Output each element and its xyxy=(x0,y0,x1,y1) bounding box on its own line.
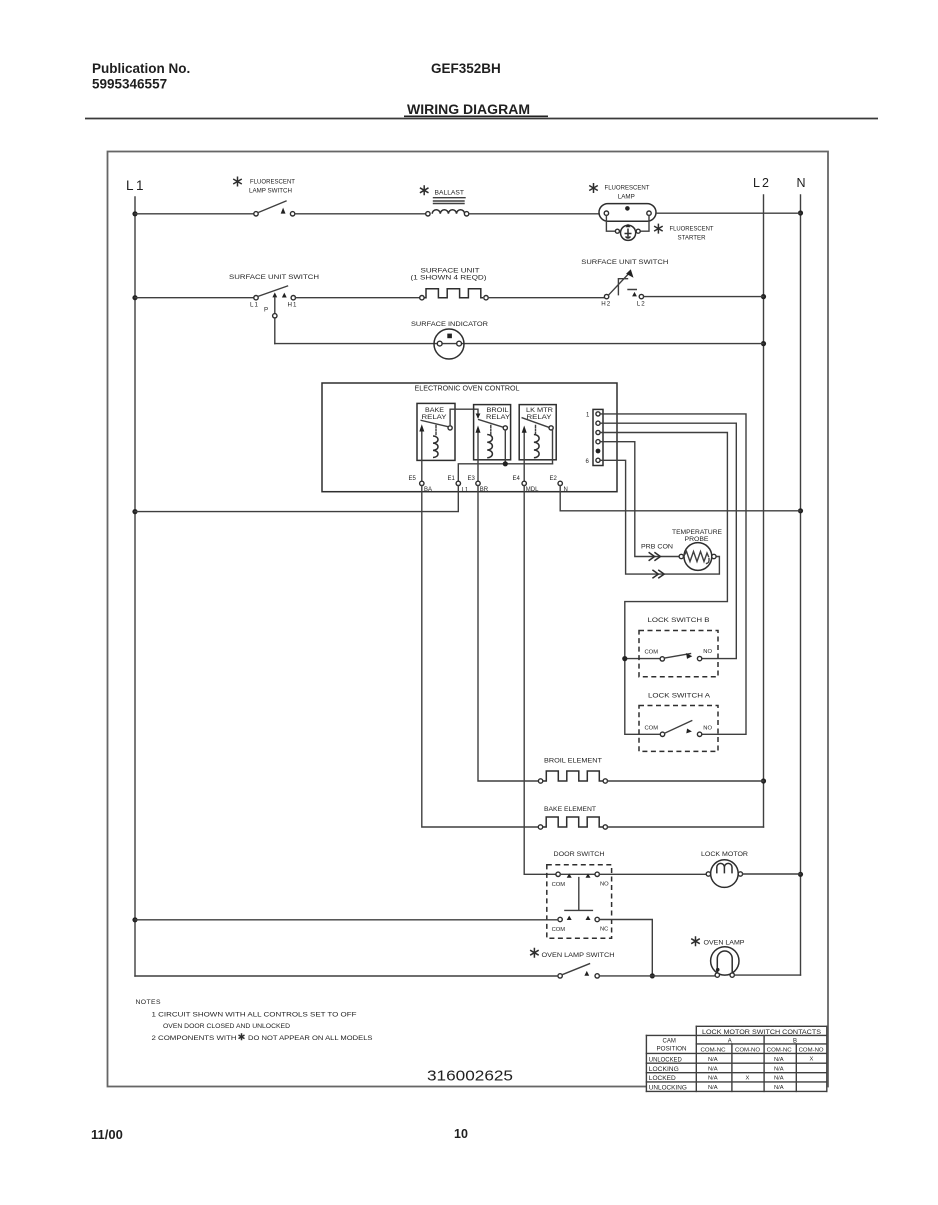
svg-text:2 COMPONENTS WITH: 2 COMPONENTS WITH xyxy=(152,1035,237,1042)
svg-text:COM-NC: COM-NC xyxy=(767,1047,792,1053)
svg-text:LOCK SWITCH A: LOCK SWITCH A xyxy=(648,692,711,699)
svg-text:BALLAST: BALLAST xyxy=(435,190,465,197)
surface unit switch left xyxy=(229,274,319,314)
svg-text:LAMP SWITCH: LAMP SWITCH xyxy=(249,188,292,195)
svg-text:ELECTRONIC OVEN CONTROL: ELECTRONIC OVEN CONTROL xyxy=(415,386,520,393)
connector J1 xyxy=(586,409,604,465)
svg-text:E2: E2 xyxy=(550,476,558,482)
wire L2 bus vertical xyxy=(763,195,765,827)
svg-text:COM: COM xyxy=(552,882,566,888)
junction L2-indicator row xyxy=(761,341,766,346)
svg-text:1 CIRCUIT SHOWN WITH ALL CON: 1 CIRCUIT SHOWN WITH ALL CONTROLS SET TO… xyxy=(152,1011,357,1018)
svg-text:LOCKED: LOCKED xyxy=(649,1076,677,1082)
wire N bus vertical xyxy=(800,195,802,975)
surface unit switch right xyxy=(581,259,668,308)
svg-text:BROIL ELEMENT: BROIL ELEMENT xyxy=(544,757,602,764)
wire bake element to L2 bus corner xyxy=(608,826,764,828)
broil element xyxy=(538,757,607,783)
svg-text:N/A: N/A xyxy=(708,1085,718,1091)
wire broil relay contact drop xyxy=(504,430,506,464)
lock motor switch contacts table xyxy=(646,1026,826,1091)
svg-text:RELAY: RELAY xyxy=(486,414,510,421)
terminal E2 N xyxy=(550,476,568,493)
wire door switch NO to lock motor xyxy=(599,873,706,875)
temperature probe RT1 xyxy=(672,529,722,570)
svg-text:LOCK SWITCH B: LOCK SWITCH B xyxy=(648,617,710,624)
svg-text:N/A: N/A xyxy=(774,1057,784,1063)
svg-text:STARTER: STARTER xyxy=(678,234,706,241)
svg-text:RELAY: RELAY xyxy=(422,414,447,421)
svg-text:LK MTR: LK MTR xyxy=(526,407,554,414)
svg-text:N/A: N/A xyxy=(708,1076,718,1082)
svg-text:E1: E1 xyxy=(448,476,456,482)
junction N-EOC E2 wire xyxy=(798,508,803,513)
header rule line xyxy=(85,118,878,120)
wire broil element to L2 bus xyxy=(608,780,764,782)
svg-text:OVEN LAMP SWITCH: OVEN LAMP SWITCH xyxy=(542,952,615,959)
svg-text:11/00: 11/00 xyxy=(91,1127,123,1142)
oven lamp DS1 xyxy=(691,936,744,977)
wire oven lamp to N bus xyxy=(734,974,800,976)
svg-text:COM-NO: COM-NO xyxy=(735,1047,761,1053)
junction NC drop / lamp row xyxy=(650,973,655,978)
junction L1-row1 xyxy=(132,211,137,216)
svg-text:L1: L1 xyxy=(126,178,146,193)
svg-text:COM: COM xyxy=(645,725,659,731)
wire pin6 to probe return xyxy=(600,460,719,574)
wire pin4 to probe connector xyxy=(600,442,679,557)
relay K2 broil relay xyxy=(474,405,511,482)
svg-text:B: B xyxy=(793,1039,797,1045)
svg-text:FLUORESCENT: FLUORESCENT xyxy=(670,226,714,233)
junction L1-row2 xyxy=(132,295,137,300)
svg-text:SURFACE UNIT SWITCH: SURFACE UNIT SWITCH xyxy=(581,259,668,266)
svg-text:BA: BA xyxy=(424,487,432,493)
oven lamp switch xyxy=(530,948,615,978)
svg-text:X: X xyxy=(810,1057,814,1063)
terminal E1 L1 xyxy=(448,476,469,494)
svg-text:MDL: MDL xyxy=(526,487,539,493)
svg-text:N: N xyxy=(797,176,806,190)
svg-text:H2: H2 xyxy=(601,301,611,308)
wire door switch NC to oven lamp row xyxy=(599,920,652,976)
svg-text:BROIL: BROIL xyxy=(487,407,510,414)
svg-text:PRB CON: PRB CON xyxy=(641,543,673,550)
svg-text:L1: L1 xyxy=(462,488,469,494)
svg-text:E4: E4 xyxy=(513,476,521,482)
svg-text:P: P xyxy=(264,307,268,314)
svg-text:NO: NO xyxy=(703,649,712,655)
svg-text:NC: NC xyxy=(600,926,608,932)
junction N-row1 xyxy=(798,210,803,215)
electronic oven control box xyxy=(322,383,617,492)
wire E5 to bake element xyxy=(422,486,539,827)
terminal E4 MDL xyxy=(513,476,540,493)
lock motor B1 xyxy=(701,851,748,887)
wire L1 bus vertical xyxy=(134,197,136,976)
wire row1 right-mid segment xyxy=(469,213,599,215)
svg-text:Publication No.: Publication No. xyxy=(92,61,190,76)
wire row2 to surface unit xyxy=(296,297,420,299)
wire E1 to L1 bus xyxy=(135,486,458,512)
wire L1 feed to relay contacts xyxy=(458,464,552,481)
wire pin1 to lock switch A NO xyxy=(600,414,746,734)
junction N-lock motor xyxy=(798,872,803,877)
wire branch to lock switch B COM xyxy=(625,658,660,660)
junction L1-door switch row xyxy=(132,917,137,922)
svg-text:FLUORESCENT: FLUORESCENT xyxy=(605,185,650,192)
wire E4 to door switch xyxy=(524,486,556,875)
terminal P branch of surface unit switch xyxy=(272,292,277,343)
svg-text:L2: L2 xyxy=(753,176,771,190)
svg-text:NO: NO xyxy=(703,726,712,732)
wire lock motor to N bus xyxy=(743,873,801,875)
bake element xyxy=(538,806,607,829)
wire E2 to N bus xyxy=(560,486,800,511)
wire row2 to L2 bus xyxy=(644,296,764,298)
lock switch B xyxy=(639,617,718,677)
svg-text:OVEN DOOR CLOSED AND UNLOCKED: OVEN DOOR CLOSED AND UNLOCKED xyxy=(163,1023,290,1030)
wire bake relay contact to broil relay xyxy=(450,409,478,426)
svg-text:LAMP: LAMP xyxy=(618,194,635,201)
svg-text:N/A: N/A xyxy=(774,1085,784,1091)
door switch xyxy=(547,851,612,938)
diagram border frame xyxy=(108,152,829,1087)
svg-text:H1: H1 xyxy=(288,301,298,308)
probe connector PRB CON xyxy=(641,543,673,578)
notes xyxy=(136,999,374,1042)
wire row1 left segment xyxy=(135,213,254,215)
wire row2 left segment xyxy=(135,297,254,299)
svg-text:316002625: 316002625 xyxy=(427,1068,513,1085)
svg-text:BAKE ELEMENT: BAKE ELEMENT xyxy=(544,806,596,813)
surface unit element xyxy=(411,268,489,300)
svg-text:N: N xyxy=(564,487,568,493)
wire surface indicator row xyxy=(275,343,764,345)
ballast xyxy=(420,185,469,216)
wire lamp switch to oven lamp xyxy=(599,975,715,977)
svg-text:N/A: N/A xyxy=(708,1067,718,1073)
svg-text:N/A: N/A xyxy=(774,1076,784,1082)
svg-text:COM: COM xyxy=(552,927,566,933)
svg-text:SURFACE UNIT SWITCH: SURFACE UNIT SWITCH xyxy=(229,274,319,281)
svg-text:E5: E5 xyxy=(409,476,417,482)
fluorescent starter xyxy=(606,215,713,241)
svg-text:TEMPERATURE: TEMPERATURE xyxy=(672,529,722,536)
svg-text:WIRING DIAGRAM: WIRING DIAGRAM xyxy=(407,102,530,117)
svg-text:DO NOT APPEAR ON ALL MODELS: DO NOT APPEAR ON ALL MODELS xyxy=(248,1035,373,1042)
svg-text:LOCK MOTOR: LOCK MOTOR xyxy=(701,851,748,858)
fluorescent lamp switch xyxy=(233,177,295,217)
wire E3 to broil element xyxy=(478,486,538,781)
svg-text:LOCK MOTOR SWITCH CONTACTS: LOCK MOTOR SWITCH CONTACTS xyxy=(702,1029,821,1036)
lock switch A xyxy=(639,692,718,751)
relay K1 bake relay xyxy=(417,403,455,481)
svg-text:N/A: N/A xyxy=(708,1057,718,1063)
terminal E5 BA xyxy=(409,476,433,493)
wire row1 mid segment xyxy=(295,213,426,215)
svg-text:BR: BR xyxy=(480,487,489,493)
svg-text:COM: COM xyxy=(645,649,659,655)
terminal E3 BR xyxy=(468,476,489,493)
junction broil contact / L1 feed xyxy=(503,461,508,466)
wire lock motor relay contact drop xyxy=(552,430,554,464)
relay K3 lock motor relay xyxy=(519,405,556,482)
svg-text:E3: E3 xyxy=(468,476,476,482)
svg-text:NO: NO xyxy=(600,881,609,887)
svg-text:UNLOCKED: UNLOCKED xyxy=(649,1057,683,1063)
junction L2-row2 xyxy=(761,294,766,299)
junction pin3 wire / lock switch B COM xyxy=(622,656,627,661)
svg-text:FLUORESCENT: FLUORESCENT xyxy=(250,178,295,185)
wire L1 to door switch lower COM xyxy=(135,919,558,921)
svg-text:OVEN LAMP: OVEN LAMP xyxy=(704,939,745,946)
wire row2 to right switch xyxy=(488,297,604,299)
svg-text:CAM: CAM xyxy=(663,1039,676,1045)
surface indicator xyxy=(411,321,488,359)
svg-text:A: A xyxy=(728,1039,732,1045)
svg-text:(1 SHOWN 4 REQD): (1 SHOWN 4 REQD) xyxy=(411,274,487,281)
svg-text:N/A: N/A xyxy=(774,1067,784,1073)
svg-text:5995346557: 5995346557 xyxy=(92,77,167,92)
svg-text:COM-NC: COM-NC xyxy=(701,1047,726,1053)
svg-text:POSITION: POSITION xyxy=(657,1047,687,1053)
fluorescent lamp xyxy=(589,183,656,221)
wire row1 to N bus xyxy=(656,212,801,214)
svg-text:SURFACE INDICATOR: SURFACE INDICATOR xyxy=(411,321,488,328)
svg-text:NOTES: NOTES xyxy=(136,999,161,1006)
svg-text:X: X xyxy=(746,1076,750,1082)
svg-text:DOOR SWITCH: DOOR SWITCH xyxy=(554,851,605,858)
svg-text:UNLOCKING: UNLOCKING xyxy=(649,1086,687,1092)
svg-text:BAKE: BAKE xyxy=(425,407,444,414)
svg-text:LOCKING: LOCKING xyxy=(649,1067,679,1073)
wire L1 to oven lamp switch xyxy=(135,975,558,977)
svg-text:GEF352BH: GEF352BH xyxy=(431,61,501,76)
svg-text:L1: L1 xyxy=(250,302,259,309)
junction L2-broil element xyxy=(761,778,766,783)
wire pin3 to lock switch commons xyxy=(600,433,727,735)
junction L1-EOC feed xyxy=(132,509,137,514)
svg-text:L2: L2 xyxy=(637,301,646,308)
wire pin2 to lock switch B NO xyxy=(600,423,736,658)
svg-text:COM-NO: COM-NO xyxy=(799,1047,825,1053)
svg-text:10: 10 xyxy=(454,1127,468,1141)
